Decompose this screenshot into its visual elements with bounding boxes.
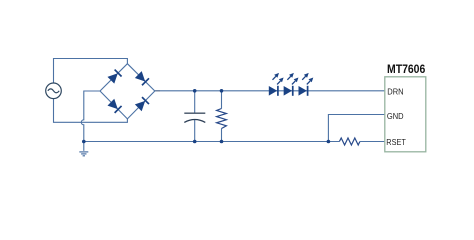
resistor R1 (bleeder, vertical zigzag) xyxy=(217,109,227,129)
ground xyxy=(79,152,88,156)
junction dot: resistor bottom xyxy=(220,140,224,144)
wire: top rail from bridge right vertex to DRN pin xyxy=(155,90,385,92)
AC source V1 xyxy=(46,83,62,99)
LED D1 xyxy=(269,73,284,96)
resistor RSET (horizontal zigzag) xyxy=(339,138,360,145)
wire: GND pin to ground rail xyxy=(328,115,384,142)
svg-text:RSET: RSET xyxy=(386,137,406,147)
bridge rectifier diamond outline xyxy=(100,64,155,119)
svg-text:GND: GND xyxy=(387,111,404,121)
wire: bottom rail from ground node to RSET resistor xyxy=(84,141,340,143)
wire: resistor bottom lead xyxy=(221,129,223,142)
junction dot: ground node xyxy=(82,140,86,144)
bridge diode lower-left (points to bottom vertex) xyxy=(107,99,121,113)
wire: capacitor top lead xyxy=(194,91,196,113)
wire: resistor top lead xyxy=(221,91,223,109)
capacitor C1 (polarized) xyxy=(184,113,205,122)
node: bridge DC+ output (small orange mark) xyxy=(155,90,160,92)
bridge diode lower-right (points to right vertex) xyxy=(135,97,149,111)
junction dot: resistor top xyxy=(220,89,224,93)
wire: RSET resistor to RSET pin xyxy=(360,141,385,143)
LED D3 xyxy=(299,73,314,96)
junction dot: cap bottom xyxy=(193,140,197,144)
wire bottom: AC source bottom lead to bridge bottom vertex xyxy=(54,99,128,123)
wire: capacitor bottom lead xyxy=(194,120,196,142)
LED D2 xyxy=(284,73,299,96)
bridge diode upper-right (points to right vertex) xyxy=(135,71,149,85)
junction dot: cap top xyxy=(193,89,197,93)
svg-text:DRN: DRN xyxy=(387,87,403,97)
svg-text:MT7606: MT7606 xyxy=(387,64,425,76)
wire top: AC source top lead to bridge top vertex xyxy=(54,59,128,84)
wire: bridge left vertex stub down to ground node (hops over AC bottom wire) xyxy=(81,91,100,151)
junction dot: GND/RSET node xyxy=(327,140,331,144)
IC U1 MT7606 box xyxy=(385,77,426,152)
bridge diode upper-left (points to top vertex) xyxy=(107,70,121,84)
